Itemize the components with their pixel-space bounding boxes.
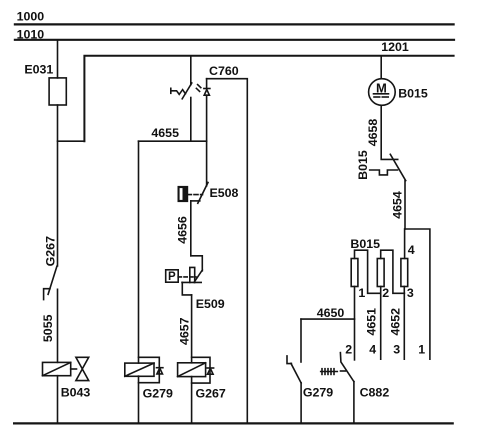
svg-text:B015: B015 [350, 237, 380, 251]
switch E508 fixed contact [191, 200, 200, 202]
svg-text:E031: E031 [24, 62, 53, 76]
switch E509 arm [194, 270, 202, 282]
svg-text:4651: 4651 [364, 308, 378, 336]
switch G279 arm [291, 363, 301, 383]
svg-text:4: 4 [369, 343, 376, 357]
svg-text:G279: G279 [303, 385, 333, 399]
svg-text:5055: 5055 [41, 314, 55, 342]
svg-text:1010: 1010 [17, 27, 45, 41]
pressure membrane E509 [190, 267, 195, 282]
wire 4656 [190, 201, 192, 256]
wire switch to 4655 rail [190, 98, 192, 142]
R3 bottom stub [403, 287, 405, 294]
relay coil G279 [125, 363, 154, 376]
dashed link E509 [178, 276, 196, 278]
svg-text:4652: 4652 [389, 308, 403, 336]
diode G267 [207, 367, 214, 369]
wire jog to 1201 rail [58, 140, 85, 142]
svg-text:E509: E509 [196, 297, 225, 311]
wire E509 down-jog [182, 282, 191, 295]
svg-text:4654: 4654 [391, 191, 405, 219]
wire switch to B043 (5055) [57, 289, 59, 362]
switch B015 arm [390, 154, 405, 180]
switch E508 arm [198, 183, 208, 204]
switch actuator zigzag [170, 88, 172, 93]
svg-text:3: 3 [393, 343, 400, 357]
diode G279 [157, 367, 163, 369]
fuse E031 [49, 78, 66, 105]
svg-text:4655: 4655 [151, 126, 179, 140]
wire 4657 [191, 295, 193, 363]
svg-text:4656: 4656 [176, 216, 190, 244]
svg-text:E508: E508 [210, 186, 239, 200]
rail 4655 [139, 140, 207, 142]
resistor R2 [377, 259, 384, 287]
svg-text:4658: 4658 [366, 119, 380, 147]
valve symbol B043 [76, 357, 89, 369]
dash link C882 [341, 370, 346, 372]
chain R1 top to R2 bottom [355, 250, 381, 293]
wire B043 to ground [57, 376, 59, 424]
bus 1000 [15, 23, 454, 25]
svg-text:4657: 4657 [177, 317, 191, 345]
dashed link E508 [187, 194, 202, 196]
switch B015 actuator [370, 170, 398, 175]
wire 4655 rail down to relay G279 [138, 141, 140, 363]
wire fuse to switch G267 [57, 105, 59, 266]
switch E509 fixed contact [182, 281, 201, 283]
motor B015 [369, 79, 396, 106]
thermal actuator E508 [178, 187, 187, 202]
svg-text:G267: G267 [196, 387, 226, 401]
svg-text:C882: C882 [360, 385, 390, 399]
rail 4650 [301, 318, 355, 320]
chain R2 top to R3 bottom [381, 250, 405, 293]
svg-text:1000: 1000 [17, 10, 45, 24]
svg-text:3: 3 [407, 286, 414, 300]
wire C760 to switch E508 [206, 95, 208, 186]
diode loop G267 [192, 357, 210, 383]
switch arm (ignition switch) [182, 83, 192, 99]
wire C882 to ground [353, 382, 355, 424]
heater actuator C882 [321, 371, 338, 373]
wire G279 to ground [138, 376, 140, 423]
wire 1201 to motor B015 [380, 56, 382, 79]
ground bus [14, 422, 453, 424]
relay coil G267 [178, 363, 206, 377]
wire C760 loop to ground [207, 79, 248, 424]
solenoid coil B043 [43, 362, 71, 375]
wire G267 to ground [191, 377, 193, 424]
wire jog to E509 [191, 256, 203, 271]
pressure box P E509 [166, 270, 179, 282]
wire 4652 [403, 293, 405, 359]
wire 4658 [381, 105, 398, 159]
connector C760 symbol [206, 79, 208, 89]
svg-text:4: 4 [408, 243, 415, 257]
wire 4651 [380, 293, 382, 359]
svg-text:1: 1 [418, 343, 425, 357]
svg-text:4650: 4650 [317, 306, 345, 320]
link coil to valve [71, 368, 77, 370]
bus 1201 [84, 56, 453, 141]
resistor R1 [351, 259, 358, 287]
wire R1 bottom to C882 [354, 287, 356, 360]
switch C882 arm [340, 353, 354, 382]
svg-text:2: 2 [345, 343, 352, 357]
svg-text:G267: G267 [44, 236, 58, 266]
switch G267 arm [48, 266, 57, 294]
wire 4650 to switch G279 [300, 319, 302, 362]
wire 4654 [404, 181, 406, 229]
svg-text:B015: B015 [356, 150, 370, 180]
svg-text:B043: B043 [61, 386, 91, 400]
wire 1201 to switch [190, 56, 192, 85]
svg-text:1: 1 [358, 286, 365, 300]
resistor R3 [401, 259, 408, 287]
wire from 1010 to fuse E031 [57, 41, 59, 78]
wire branch to pin 1 [405, 229, 430, 359]
switch G279 fixed contact bracket [287, 356, 291, 364]
svg-text:P: P [168, 271, 176, 283]
switch G267 fixed contact bracket [44, 289, 50, 300]
svg-text:B015: B015 [398, 87, 428, 101]
diode loop G279 [139, 357, 160, 382]
svg-text:1201: 1201 [381, 40, 409, 54]
wire switch G279 to ground [300, 383, 302, 424]
svg-text:2: 2 [382, 286, 389, 300]
svg-text:C760: C760 [209, 64, 239, 78]
R2 bottom stub [380, 287, 382, 294]
bus 1010 [15, 39, 454, 41]
svg-text:G279: G279 [143, 387, 173, 401]
